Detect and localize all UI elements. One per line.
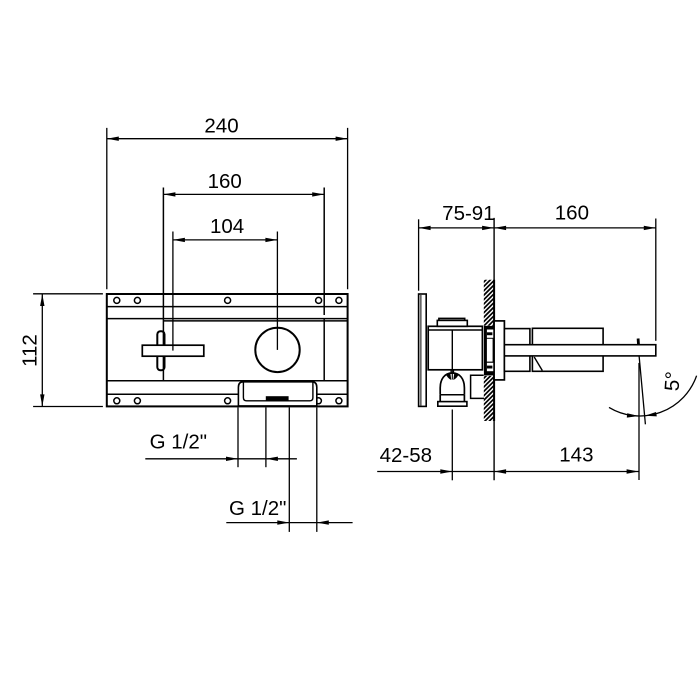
wall hatching lower	[483, 367, 495, 432]
svg-text:143: 143	[559, 444, 593, 467]
mounting box outer frame	[107, 294, 348, 406]
dimension G 1/2 lower	[226, 522, 352, 524]
spout connector section	[504, 329, 530, 372]
spout main housing	[532, 328, 603, 371]
svg-text:5°: 5°	[661, 371, 685, 392]
wall surface line	[493, 218, 495, 480]
spout escutcheon outer	[238, 382, 316, 406]
clip bottom notch	[487, 363, 495, 371]
dimension 240	[107, 128, 348, 289]
handle lever bar	[142, 345, 204, 356]
valve body centre line	[451, 330, 453, 370]
svg-text:240: 240	[204, 115, 238, 138]
bell base	[438, 402, 467, 407]
spout escutcheon inner	[243, 382, 313, 401]
valve cap lower step	[437, 320, 467, 326]
body right edge	[323, 188, 325, 316]
back mounting plate	[419, 294, 427, 406]
bottom dimension line	[377, 471, 638, 473]
dimension G 1/2 upper	[145, 458, 297, 460]
dimension 42-58 arrows	[440, 469, 452, 473]
dimension 75-91	[418, 219, 420, 290]
bottom rail top line	[107, 393, 348, 395]
svg-text:160: 160	[208, 170, 242, 193]
drain bell dome	[440, 373, 464, 395]
svg-text:160: 160	[555, 201, 589, 224]
svg-text:G 1/2": G 1/2"	[229, 497, 286, 520]
flange escutcheon on wall	[494, 321, 504, 380]
svg-text:42-58: 42-58	[380, 444, 432, 467]
wall hatching upper	[483, 271, 495, 336]
clip top notch	[487, 330, 495, 338]
tick above tube end	[637, 339, 640, 345]
screw holes bottom rail	[114, 398, 342, 404]
bell centre line	[451, 371, 453, 380]
top rail bottom line	[107, 306, 348, 308]
handle centre extension line	[172, 232, 174, 351]
svg-text:112: 112	[19, 334, 42, 367]
arc arrowheads	[627, 413, 639, 417]
bell skirt sides	[439, 395, 441, 402]
spout tube	[504, 345, 655, 356]
bell inlet funnel	[446, 374, 451, 380]
dimension 160 (side)	[655, 219, 657, 341]
mounting clip block	[484, 326, 495, 376]
step below body to wall	[471, 375, 484, 398]
inlet extension lines below box	[238, 408, 317, 532]
mid band lower line	[107, 380, 348, 382]
body left edge	[162, 188, 164, 381]
housing chamfer	[534, 357, 542, 371]
handle stem plate	[157, 331, 164, 370]
mid band upper line	[107, 318, 348, 320]
spout centre extension line	[276, 232, 278, 350]
back plate inner line	[420, 295, 422, 406]
spout outlet slot	[266, 396, 289, 401]
dimension 104	[173, 239, 278, 241]
clip slot	[487, 339, 493, 362]
svg-text:75-91: 75-91	[442, 202, 494, 225]
screw holes top rail	[114, 297, 342, 303]
bell neck	[450, 370, 452, 374]
body top line	[163, 320, 347, 322]
tilted stream line	[639, 356, 645, 424]
valve body	[428, 326, 482, 370]
dimension 112	[33, 294, 103, 407]
svg-text:G 1/2": G 1/2"	[150, 431, 207, 454]
bell centre extension line	[451, 410, 453, 481]
vertical reference line	[638, 363, 640, 480]
dimension 160 (front)	[163, 193, 324, 195]
spout hole circle	[255, 328, 299, 372]
valve body top bar line	[428, 329, 482, 331]
valve cap upper step	[439, 318, 465, 320]
svg-text:104: 104	[210, 215, 244, 238]
5 degree arc	[609, 376, 697, 416]
bell band line	[440, 394, 464, 396]
